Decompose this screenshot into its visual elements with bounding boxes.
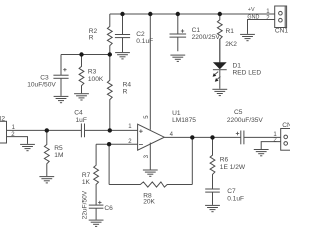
resistor R5	[44, 130, 49, 176]
ground C2	[115, 53, 130, 59]
label R5 value	[54, 145, 63, 159]
svg-text:C7: C7	[227, 188, 236, 195]
label CN3	[282, 122, 296, 129]
node rail-C1	[176, 12, 180, 16]
pin 2 CN1	[266, 15, 270, 21]
LED D1	[213, 39, 227, 89]
node pin2-feedback	[107, 142, 111, 146]
pin 5 U1	[144, 115, 150, 119]
svg-text:R4: R4	[123, 82, 132, 89]
capacitor C6	[89, 201, 104, 220]
label R1 value	[225, 28, 237, 48]
wire C4 to op-amp pin 1	[85, 129, 138, 131]
label CN2	[0, 116, 5, 123]
svg-text:2200uF/35V: 2200uF/35V	[227, 117, 264, 124]
pin 3 U1	[144, 154, 150, 158]
wire C5 to CN3 pin 1	[244, 136, 281, 138]
ground R5	[39, 177, 54, 183]
svg-text:D1: D1	[233, 63, 242, 70]
svg-text:CN3: CN3	[282, 122, 290, 129]
svg-text:22uF/50V: 22uF/50V	[81, 190, 88, 219]
wire +V rail	[110, 13, 275, 15]
resistor R8	[109, 182, 192, 187]
ground C6	[89, 220, 104, 226]
connector CN3	[281, 129, 293, 151]
wire CN3 pin 2 to ground	[261, 142, 281, 149]
wire inverting input pin 2	[96, 143, 138, 145]
svg-text:0.1uF: 0.1uF	[227, 196, 244, 203]
node rail-U1	[148, 12, 152, 16]
label D1 value	[233, 63, 262, 77]
label C2 value	[136, 31, 153, 45]
label C3 value	[27, 75, 56, 89]
ground C7	[205, 205, 220, 211]
svg-text:R: R	[123, 89, 128, 96]
resistor R1	[217, 14, 222, 62]
label U1 value	[172, 110, 196, 124]
capacitor C4	[81, 124, 84, 138]
pin 1 CN3	[273, 132, 277, 138]
node rail-C2	[120, 12, 124, 16]
wire output to C5	[164, 136, 241, 138]
svg-text:R: R	[89, 35, 94, 42]
svg-text:1M: 1M	[54, 152, 63, 159]
wire feedback left leg	[108, 144, 110, 184]
svg-text:C6: C6	[104, 205, 113, 212]
pin 1 U1	[128, 124, 132, 130]
resistor R7	[94, 144, 99, 205]
svg-text:100K: 100K	[88, 76, 104, 83]
svg-text:R6: R6	[220, 157, 229, 164]
svg-text:C4: C4	[74, 110, 83, 117]
ground C1	[170, 55, 185, 61]
wire CN2 pin 2 to ground	[7, 137, 28, 144]
label C1 value	[192, 27, 221, 41]
ground R3	[74, 94, 89, 100]
svg-text:R3: R3	[88, 69, 97, 76]
pin 2 CN2	[11, 132, 15, 138]
capacitor C5	[236, 131, 244, 145]
node rail-R1	[218, 12, 222, 16]
wire bias mid rail	[61, 54, 110, 56]
connector CN1	[275, 6, 287, 28]
label R7 value	[82, 172, 91, 186]
svg-text:C5: C5	[234, 109, 243, 116]
svg-text:10uF/50V: 10uF/50V	[27, 81, 56, 88]
label C4 value	[74, 110, 87, 125]
pin 2 U1	[128, 139, 132, 145]
capacitor C2	[115, 14, 130, 52]
capacitor C3	[53, 55, 68, 96]
capacitor C1	[170, 14, 187, 51]
svg-text:CN2: CN2	[0, 116, 5, 123]
label C6 value	[81, 190, 113, 219]
label R6 value	[220, 157, 246, 171]
svg-text:20K: 20K	[143, 199, 155, 206]
node bias-R2R4	[108, 52, 112, 56]
label R3 value	[88, 69, 104, 83]
wire feedback right leg to output	[191, 137, 193, 184]
ground CN3	[254, 150, 269, 156]
ground U1 pin3	[143, 170, 158, 176]
svg-text:1E 1/2W: 1E 1/2W	[220, 164, 246, 171]
ground CN2	[20, 144, 35, 150]
svg-text:GND: GND	[247, 15, 259, 21]
ground C3	[54, 96, 69, 102]
pin 4 U1	[170, 132, 174, 138]
svg-text:RED LED: RED LED	[233, 70, 262, 77]
capacitor C7	[205, 189, 220, 205]
svg-text:1uF: 1uF	[76, 117, 87, 124]
wire op-amp pin 3 to ground	[149, 143, 151, 170]
node output-feedback	[190, 135, 194, 139]
label R2 value	[89, 28, 98, 42]
svg-text:2K2: 2K2	[225, 41, 237, 48]
node bias-R3	[79, 52, 83, 56]
svg-text:+V: +V	[248, 7, 255, 13]
node input-R4	[108, 128, 112, 132]
resistor R6	[210, 137, 215, 189]
label C7 value	[227, 188, 244, 203]
pin 2 CN3	[273, 137, 277, 143]
resistor R3	[79, 55, 84, 94]
resistor R4	[107, 55, 112, 131]
wire input from CN2 pin 1 to C4	[7, 129, 82, 131]
ground CN1	[240, 34, 255, 40]
ground D1	[212, 89, 227, 95]
pin 1 CN1	[266, 9, 270, 15]
label R8 value	[143, 193, 155, 206]
wire V+ supply to pin 5	[149, 14, 151, 130]
node +V	[248, 7, 255, 13]
svg-text:U1: U1	[172, 110, 181, 117]
svg-text:LM1875: LM1875	[172, 117, 196, 124]
svg-text:R7: R7	[82, 172, 91, 179]
svg-text:CN1: CN1	[275, 27, 289, 34]
node output-R6	[210, 135, 214, 139]
label R4 value	[123, 82, 132, 96]
svg-text:R1: R1	[226, 28, 235, 35]
wire CN1 pin 2 to ground	[248, 20, 275, 34]
op-amp U1	[138, 124, 165, 150]
resistor R2	[107, 14, 112, 55]
pin 1 CN2	[12, 125, 16, 131]
label C5 value	[227, 109, 264, 124]
svg-text:0.1uF: 0.1uF	[136, 38, 153, 45]
svg-text:1K: 1K	[82, 179, 91, 186]
node GND	[247, 15, 259, 21]
node input-R5	[45, 128, 49, 132]
connector CN2	[0, 121, 7, 143]
label CN1	[275, 27, 289, 34]
svg-text:2200/25V: 2200/25V	[192, 34, 221, 41]
